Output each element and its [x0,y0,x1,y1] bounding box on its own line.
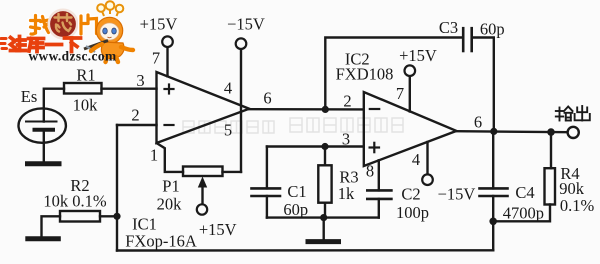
wire C4 top branch [492,131,494,188]
svg-text:20k: 20k [157,195,183,214]
source Es circle [19,108,66,142]
wire pin3 IC2 rail [267,145,364,147]
capacitor C1 plates [252,188,281,196]
wire pin4 IC2 [426,142,428,174]
wire C1 bottom lead [266,196,268,218]
wire C3 right to output node [472,38,494,132]
svg-text:C4: C4 [515,183,534,202]
label output 输出 [556,106,590,121]
wire R3 bottom lead [324,203,326,218]
wire IC2 output [456,131,567,132]
svg-text:10k 0.1%: 10k 0.1% [43,191,107,210]
svg-text:FXop-16A: FXop-16A [125,232,197,251]
wire R1 to pin3 IC1 [102,87,157,89]
svg-text:−15V: −15V [227,15,265,34]
ground mid [308,239,339,244]
wire IC1 output to pin2 IC2 [249,108,364,111]
wire Es top lead [44,89,64,122]
wire pin4 pin5 IC1 vertical [240,49,242,172]
node output C3 C4 junction [490,128,497,135]
node pin3 IC2 junction [321,143,328,150]
watermark char xin 芯 [55,14,72,32]
svg-text:1: 1 [150,146,158,165]
watermark text weikuyixia 维库一下 [11,37,81,52]
source Es internal long plate [26,121,57,123]
node bottom rail junction [320,214,327,221]
node C4 R4 bottom junction [489,218,497,226]
svg-text:+15V: +15V [399,46,437,65]
wire C2 bottom lead [378,199,380,218]
wire R2 left lead [42,216,61,236]
svg-text:7: 7 [152,49,160,68]
svg-text:C3: C3 [439,18,458,37]
ground under R2 [28,236,59,241]
resistor R1 [64,83,102,94]
svg-text:5: 5 [224,121,232,140]
svg-text:3: 3 [342,130,350,149]
svg-text:FXD108: FXD108 [336,65,394,84]
watermark mascot left arm [91,44,102,51]
watermark group [0,1,133,63]
svg-text:www.dzsc.com: www.dzsc.com [28,49,116,64]
svg-text:2: 2 [131,106,139,125]
svg-text:P1: P1 [162,177,179,196]
wire R4 top lead [550,132,552,168]
terminal +15V IC2 pin7 [405,65,416,76]
wire pin7 IC1 [166,47,168,76]
resistor R2 [60,211,100,222]
watermark mascot hood [96,17,122,43]
resistor R3 [318,165,331,202]
svg-text:6: 6 [474,113,482,132]
watermark char zhao 找 white halo [31,16,50,35]
wire bottom feedback [117,249,493,252]
svg-text:R1: R1 [76,66,95,85]
wire R4 bottom lead [493,205,550,222]
potentiometer P1 arrow head [198,177,207,188]
watermark circle around xin [49,10,77,38]
wire pin1 IC1 to P1 [157,143,184,172]
svg-text:3: 3 [136,71,144,90]
faint gray site watermark row [183,118,403,133]
terminal +15V P1 wiper [197,204,207,214]
svg-text:6: 6 [263,89,271,108]
watermark mascot eyes [103,28,117,34]
watermark mascot face [100,23,119,40]
svg-text:C2: C2 [401,185,420,204]
svg-text:2: 2 [343,92,351,111]
node pin2 IC2 junction [322,106,329,113]
watermark char zhao 找 [31,16,50,35]
svg-text:4700p: 4700p [503,204,544,223]
svg-text:0.1%: 0.1% [560,196,595,215]
svg-text:4: 4 [224,79,232,98]
svg-text:−15V: −15V [438,185,476,204]
svg-text:4: 4 [412,150,420,169]
capacitor C2 plates [367,190,391,199]
wire Es bottom lead [43,130,45,162]
watermark mascot pen [84,41,108,50]
svg-text:1k: 1k [338,184,355,203]
watermark char pian 片 white halo [81,15,97,34]
svg-text:60p: 60p [283,200,308,219]
terminal +15V IC1 pin7 [162,36,173,47]
watermark mascot mouth [108,36,112,39]
watermark mascot right arm [121,47,133,50]
wire C1 top branch [266,147,268,189]
terminal -15V IC2 pin4 [422,174,433,185]
watermark mascot body [101,42,124,59]
node R2 feedback junction [113,213,120,220]
svg-text:7: 7 [396,84,404,103]
source Es internal short thick plate [35,128,54,132]
svg-text:Es: Es [21,87,38,106]
op-amp U2 triangle [364,92,457,166]
resistor R4 [545,168,556,204]
wire C4 bottom lead [492,196,494,250]
potentiometer P1 wiper arrow [201,184,203,204]
terminal -15V IC1 pin4 [236,38,247,49]
wire pin7 IC2 [409,76,411,111]
wire pin8 IC2 to C2 [378,160,380,190]
watermark char pian 片 [81,15,97,34]
svg-text:C1: C1 [287,182,306,201]
minus sign input IC2 [370,108,379,110]
wire ground lead mid [323,218,325,240]
wire feedback vertical left [116,125,118,251]
capacitor C4 plates [480,188,508,196]
svg-text:60p: 60p [480,19,505,38]
plus sign input IC1 [165,85,174,94]
watermark mascot antennae [97,1,123,16]
potentiometer P1 [183,167,223,177]
svg-text:+15V: +15V [140,15,178,34]
wire R3 top lead [324,147,326,166]
watermark mascot legs [106,57,108,62]
node output R4 junction [547,128,555,136]
wire R2 right lead [100,215,117,217]
wire feedback up branch [325,38,463,110]
capacitor C3 plates [463,28,472,51]
terminal output [568,127,579,138]
svg-text:8: 8 [366,162,374,181]
wire pin2 IC1 [117,124,157,126]
minus sign input IC1 [165,124,174,126]
plus sign input IC2 [370,143,379,152]
wire bottom rail C1 R3 C2 [267,216,379,218]
wire P1 right lead [223,171,242,173]
op-amp U1 triangle [157,72,250,143]
ground under Es [28,161,60,166]
watermark speed lines [0,39,7,49]
svg-text:100p: 100p [396,203,429,222]
svg-text:10k: 10k [73,96,99,115]
svg-text:+15V: +15V [199,220,237,239]
